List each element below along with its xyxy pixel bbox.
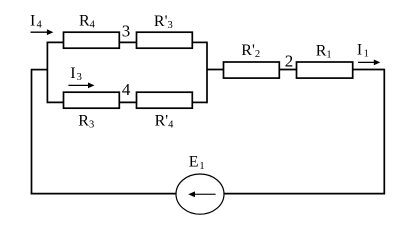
wire: left connector from left rail to parallel junction [32,69,48,71]
wire: junction bar to R'2 [207,69,224,71]
wire: node 4 between R3 and R'4 [119,101,136,103]
wire: right junction bar [206,42,208,104]
current arrow I4 [31,29,54,35]
wire: right rail vertical [383,69,385,195]
wire: lead into R4 [47,41,63,43]
resistor R3 [64,92,120,108]
wire: left junction bar [46,42,48,104]
resistor R'4 [137,92,193,108]
wire: bottom left segment [31,193,177,195]
wire: bottom right segment [224,193,386,195]
wire: node 3 between R4 and R'3 [119,41,136,43]
svg-text:2: 2 [285,51,294,70]
wire: node 2 between R'2 and R1 [279,69,296,71]
wire: R'3 to right junction bar [192,41,207,43]
resistor R4 [64,32,120,48]
svg-text:4: 4 [122,80,131,99]
source E1 [176,174,224,214]
resistor R'3 [137,32,193,48]
wire: left rail vertical [31,69,33,195]
wire: R'4 to right junction bar [192,101,207,103]
wire: lead into R3 [47,101,63,103]
arrow inside source E1 [188,191,215,197]
current arrow I3 [68,83,94,89]
resistor R1 [297,62,353,78]
current arrow I1 [358,60,380,66]
svg-text:3: 3 [122,21,131,40]
resistor R'2 [224,62,280,78]
wire: R1 to right corner [353,69,385,71]
